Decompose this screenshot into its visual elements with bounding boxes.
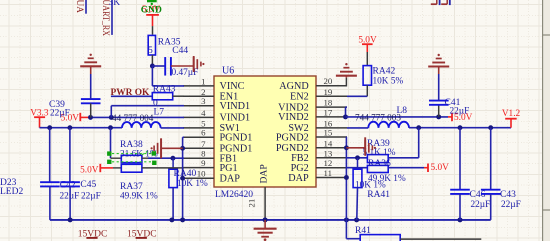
net label UART_TX vertical with wire stub [74,0,86,14]
wire SW2 to L8 [347,127,368,129]
wire VIND2 5V rail [346,116,449,118]
wire PGND2 pins 14-15 tie and down to bus [345,137,348,220]
C46 designator [470,190,486,200]
svg-text:VIND1: VIND1 [220,101,251,112]
resistor value 3K (cut off at top) [109,0,121,8]
svg-text:L7: L7 [154,108,165,118]
svg-text:12: 12 [324,158,333,168]
C41 designator [445,98,461,108]
svg-text:20: 20 [324,76,333,86]
wire junction to C44 [152,65,165,67]
wire FB2 net [347,157,367,159]
svg-text:DAP: DAP [288,173,309,184]
wire C39 top to ground [90,66,92,74]
svg-text:18: 18 [324,98,333,108]
wire RA42 to EN2 pin 19 [347,95,367,97]
ground above C41 [428,54,449,67]
power port 5.0V feeding RA37 [80,164,113,176]
svg-text:22µF: 22µF [81,191,101,201]
wire L7 to SW1 pin 5 [161,127,184,129]
RA40 designator [174,169,197,179]
wire ground bus [50,219,491,221]
C44 value 0.47uF [172,68,199,78]
C45 designator [80,180,96,190]
svg-text:744 777 003: 744 777 003 [355,112,401,122]
svg-text:PG1: PG1 [220,163,238,174]
junction PGND2 on bus [344,217,349,222]
junction RA40 on bus [169,217,174,222]
node junction DAP pin 10 [180,176,185,181]
svg-text:5.0V: 5.0V [431,163,450,173]
power port 5.0V feeding PG2 [424,163,449,173]
ground left of PGND1 [151,138,162,158]
power port 5.0V right [448,113,473,123]
svg-text:11: 11 [324,168,332,178]
svg-text:1: 1 [201,76,205,86]
resistor RA42 [363,52,371,96]
svg-text:4: 4 [201,108,206,118]
svg-text:LM26420: LM26420 [215,190,253,200]
wire 5V rail to VIND1 pins [91,116,185,118]
resistor RA43 [152,93,184,100]
svg-text:22µF: 22µF [471,200,491,210]
RA35 designator [158,37,181,47]
node junction C46 on output rail [458,125,463,130]
svg-text:R41: R41 [355,226,371,236]
resistor R41 (cut off at bottom) [360,235,481,241]
wire ground stem PGND2 [346,147,365,149]
U6 right pins 20-11 with numbers and names [276,76,347,184]
svg-text:5: 5 [148,46,153,56]
power port V3.3 [30,108,49,127]
ground AGND above pin 20 [336,63,357,87]
C39 designator [49,100,65,110]
power port GND (green) overlapping at top [141,1,162,16]
RA40 value 10K 1% [177,179,208,189]
node junction C39 on 5V rail [88,115,93,120]
power port 5.0V above RA42 [358,35,377,52]
RA39 value 5.1K 1% [363,148,396,158]
node junction C45 on V3.3 rail [67,125,72,130]
wire C44 to ground [171,65,194,67]
resistor RA37 [113,164,184,172]
L8 designator [397,106,408,116]
node junction VIND2 [343,114,348,119]
ground above C39 [80,54,101,67]
node junction FB2 [355,155,360,160]
capacitor C43 [481,128,501,220]
RA41 value 10K 1% [355,181,386,191]
svg-text:5.1K 1%: 5.1K 1% [363,148,396,158]
ground right of PGND2 [365,137,376,156]
node junction C42 on V3.3 rail [47,125,52,130]
power port 5.0V feeding VIND1 [61,113,91,124]
L8 value 744 777 003 [355,112,401,122]
wire C41 top to ground [438,67,440,75]
node junction C43 on output rail [488,125,493,130]
node junction VIND1 branch [109,115,114,120]
svg-text:6: 6 [201,128,206,138]
RA37 designator [120,182,143,192]
node junction PGND1 [180,146,185,151]
C41 value 22uF [450,107,470,117]
wire bus to R41 [346,220,360,239]
RA36 designator [368,159,391,169]
C44 designator [172,46,188,56]
capacitor C46 [450,128,470,220]
ground below pin 21 [254,220,277,241]
svg-text:C44: C44 [172,46,188,56]
svg-text:10K 1%: 10K 1% [177,179,208,189]
op-amp U6 regulator IC body LM26420 [214,76,316,187]
wire FB1 net [148,157,184,159]
R41 designator [355,226,371,236]
power port 15VDC left [78,229,108,239]
resistor RA40 [169,158,177,220]
RA41 designator [367,190,390,200]
ground right of C44 [194,56,205,72]
net label PWR_OK [111,88,151,98]
svg-text:VIND1: VIND1 [220,113,251,124]
RA37 value 49.9K 1% [120,191,158,201]
svg-text:RA36: RA36 [368,159,391,169]
C46 value 22uF [471,200,491,210]
svg-text:3K: 3K [109,0,121,8]
svg-text:C45: C45 [80,180,96,190]
capacitor C44 [165,57,171,76]
power port V1.2 [502,109,521,128]
svg-text:14: 14 [324,138,333,148]
node junction RA35/C44/VINC [150,64,155,69]
svg-text:LED2: LED2 [0,187,23,197]
net label UART_RX vertical with wire stub [100,0,112,36]
svg-text:U6: U6 [222,66,234,77]
power port 5.0V overlapping GND at top [142,5,161,26]
capacitor C41 [429,74,449,117]
svg-text:49.9K 1%: 49.9K 1% [120,191,158,201]
resistor RA41 [353,158,362,220]
wire VINC node down to pin 1 [152,66,184,86]
RA42 designator [373,67,396,77]
D23 value LED2 [0,187,23,197]
junction C45 on bus [68,217,73,222]
resistor RA38 (selected) [111,155,149,162]
wire V3.3 branch down to RA38 [110,128,112,159]
svg-text:7: 7 [201,139,206,149]
wire PGND1 pins 6-7 tie and down to bus [183,137,184,220]
svg-text:DAP: DAP [220,174,241,185]
sheet border right edge [543,0,550,241]
diode D23 designator (cut off) [0,178,17,188]
C42 value 22uF [60,191,80,201]
svg-text:UA: UA [74,0,84,13]
inductor L8 [368,122,409,128]
RA42 value 10K 5% [373,77,404,87]
svg-text:13: 13 [324,148,333,158]
wire VIND2 pins 17-18 tie [346,107,348,117]
svg-text:44 777 004: 44 777 004 [112,113,154,123]
junction C46 on bus [458,217,463,222]
RA36 value 49.9K 1% [368,174,406,184]
inductor L7 [122,122,161,128]
L7 value 44 777 004 [112,113,154,123]
svg-text:PGND2: PGND2 [276,132,309,143]
svg-text:10: 10 [197,169,206,179]
C43 designator [500,190,516,200]
svg-text:PGND1: PGND1 [220,133,253,144]
svg-text:EN2: EN2 [290,92,309,103]
RA43 value 0 [153,99,158,109]
C42 designator [60,181,76,191]
RA38 designator [120,140,143,150]
U6 value label LM26420 [215,190,253,200]
node junction C41 on 5V rail [436,114,441,119]
svg-text:VINC: VINC [220,81,245,92]
node junction FB1 [170,156,175,161]
svg-text:RA42: RA42 [373,67,396,77]
L7 designator [154,108,165,118]
resistor RA36 [347,165,424,172]
svg-text:21: 21 [247,199,257,208]
svg-text:22µF: 22µF [450,107,470,117]
C39 value 22uF [50,108,70,118]
svg-text:3: 3 [201,96,206,106]
svg-text:22µF: 22µF [50,108,70,118]
node junction RA39 branch [416,125,421,130]
capacitor C39 [81,74,101,117]
svg-text:15: 15 [324,128,333,138]
node junction PGND2 [344,145,349,150]
svg-text:DAP: DAP [259,164,270,183]
resistor RA39 [367,128,418,163]
junction DAP pin21 on bus [263,217,268,222]
RA43 designator [153,84,176,94]
C43 value 22uF [501,200,521,210]
svg-text:22µF: 22µF [501,200,521,210]
wire V1.2 output rail [409,127,511,129]
svg-text:RA43: RA43 [153,84,176,94]
RA39 designator [367,139,390,149]
clipped text fragment at top edge [431,0,450,5]
svg-text:VIND2: VIND2 [278,112,309,123]
selection handles on RA38 wires (green) [107,151,156,165]
svg-text:GND: GND [141,6,162,16]
svg-text:17: 17 [324,107,333,117]
wire PWR_OK to RA43 [111,95,152,97]
svg-text:C43: C43 [500,190,516,200]
svg-text:V1.2: V1.2 [502,109,521,119]
svg-text:19: 19 [324,87,333,97]
wire ground stem PGND1 [161,147,183,149]
wire V3.3 rail [40,127,123,129]
svg-text:10K 5%: 10K 5% [373,77,404,87]
svg-text:AGND: AGND [279,81,308,92]
capacitor C45 [60,128,80,220]
svg-text:RA41: RA41 [367,190,390,200]
power port 15VDC right [127,229,157,239]
capacitor C42 [40,128,60,220]
U6 bottom pin 21 DAP [247,164,270,220]
U6 left pins 1-10 with numbers and names [183,76,252,184]
svg-text:5.0V: 5.0V [80,165,99,175]
wire branch up to pin 3 [111,106,184,118]
RA35 value 5 [148,46,153,56]
node junction DAP pin 11 [344,175,349,180]
C45 value 22uF [81,191,101,201]
resistor RA35 [148,35,155,65]
junction PGND1 on bus [180,217,185,222]
svg-text:9: 9 [201,158,206,168]
wire from 5.0V port to RA35 [152,26,154,34]
RA38 value 31.6K 1% [120,150,158,160]
junction RA41 on bus [354,217,359,222]
U6 designator label [222,66,234,77]
node junction RA38 branch on V3.3 rail [108,125,113,130]
